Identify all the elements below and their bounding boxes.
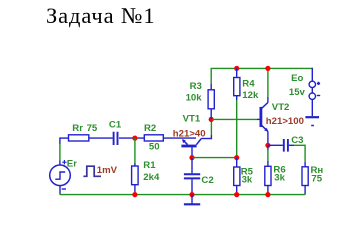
wire left vertical from corner down to Er [59,137,61,144]
svg-text:Задача №1: Задача №1 [46,3,156,28]
plus mark (Eo terminal) [317,82,320,85]
transistor VT2 (base bar) [259,107,262,127]
wire VT1 collector to node B [201,138,211,140]
wire VT2 emitter down to node E [267,131,269,145]
svg-text:C1: C1 [109,120,122,131]
wire node D down to C2 [191,158,193,174]
resistor R5 [234,167,240,186]
transistor VT1 (base bar) [181,145,196,148]
wire corner down to Rн [304,145,306,162]
ground symbol at supply [305,116,319,118]
capacitor C2 [184,174,200,178]
resistor R3 [208,90,214,109]
wire R6 bottom lead to ground rail [267,186,269,195]
wire terminal down to supply ground [311,99,313,116]
node VT2 collector on rail [265,66,270,71]
transistor VT1 collector lead [196,139,201,145]
svg-text:C3: C3 [291,135,303,146]
wire C3 to Rн corner [289,144,294,146]
svg-text:75: 75 [311,174,322,185]
wire Er bottom lead to ground rail [59,186,61,195]
node R1 bottom on rail [132,192,137,197]
ground symbol at rail [191,195,193,204]
wire top rail corner down to R3 [210,68,212,84]
resistor Rr [69,135,89,141]
resistor R4 [234,78,240,96]
wire R3 bottom lead to node B [210,109,212,120]
resistor R2 [144,135,163,141]
terminal Eo plus [309,81,315,87]
svg-text:R3: R3 [190,81,202,92]
svg-text:10k: 10k [186,92,203,103]
minus mark (supply ground) [311,125,314,127]
wire node A down to R1 [134,138,136,163]
svg-text:Er: Er [67,159,77,170]
pulse waveform symbol [83,166,101,176]
resistor R6 [265,166,271,185]
svg-text:h21>100: h21>100 [266,116,304,127]
voltage source Er (pulse generator) [50,165,71,186]
wire node B to VT2 base [211,118,257,120]
node E VT2 emitter / R6 / C3 [265,143,270,148]
plus mark (Er) [62,160,66,164]
svg-text:2k4: 2k4 [143,172,160,183]
wire VT2 collector up to rail [267,97,269,103]
wire input row: Er corner to Rr [60,137,69,139]
node R6 bottom on rail [265,192,270,197]
node R5 bottom on rail [234,192,239,197]
svg-text:R2: R2 [144,123,156,134]
wire C2 bottom lead to ground rail [191,179,193,194]
wire rail to R4 [236,68,238,77]
wire bottom ground rail [60,194,305,196]
wire R2 to VT1 emitter [163,137,196,139]
capacitor C3 [284,139,288,152]
svg-text:3k: 3k [242,174,253,185]
svg-text:R4: R4 [242,78,255,89]
wire between terminals [311,88,313,93]
resistor Rн (load) [302,167,308,186]
capacitor C1 [114,132,118,145]
resistor R1 [132,166,139,185]
svg-text:Eo: Eo [291,73,303,84]
node A junction C1/R2/R1 [132,136,137,141]
wire R5 bottom lead to ground rail [236,186,238,195]
wire node E to C3 [268,144,283,146]
svg-text:R1: R1 [143,160,156,171]
transistor VT2 collector lead [262,103,268,109]
svg-text:h21>40: h21>40 [173,128,206,139]
node C2 bottom on rail [189,192,194,197]
transistor VT1 base lead down [191,147,193,157]
svg-text:Rr: Rr [72,123,83,134]
transistor VT2 emitter arrow [264,128,268,132]
wire R4 bottom lead down to node C (crosses base wire) [236,96,238,100]
transistor VT1 emitter lead [183,140,188,145]
wire node E down to R6 [267,145,269,150]
svg-text:12k: 12k [242,90,259,101]
wire node D to node C [192,157,237,159]
svg-text:75: 75 [87,123,98,134]
node C junction R4/R5 [234,155,239,160]
wire Rн bottom lead to ground rail [304,186,306,195]
svg-text:VT1: VT1 [183,114,201,125]
node D VT1 base / C2 top [189,155,194,160]
terminal Eo minus [309,93,315,99]
node R4 top on rail [234,66,239,71]
wire C1 to node A and node A to R2 [119,137,144,139]
minus mark (Er) [62,188,66,190]
svg-text:C2: C2 [201,175,213,186]
wire top supply rail [211,67,313,69]
node B junction R3/VT1 collector/VT2 base [209,117,214,122]
wire Rr to C1 [89,137,113,139]
transistor VT2 emitter lead [262,126,268,132]
minus mark (Eo terminal) [317,95,320,97]
wire rail corner down to Eo terminals [311,68,313,81]
wire R1 bottom lead to ground rail [134,185,136,195]
svg-text:1mV: 1mV [97,165,118,176]
wire node C down to R5 [236,158,238,162]
transistor VT1 emitter arrow [182,139,186,143]
svg-text:15v: 15v [289,87,306,98]
svg-text:50: 50 [149,142,160,153]
svg-text:3k: 3k [274,173,285,184]
svg-text:VT2: VT2 [272,102,290,113]
